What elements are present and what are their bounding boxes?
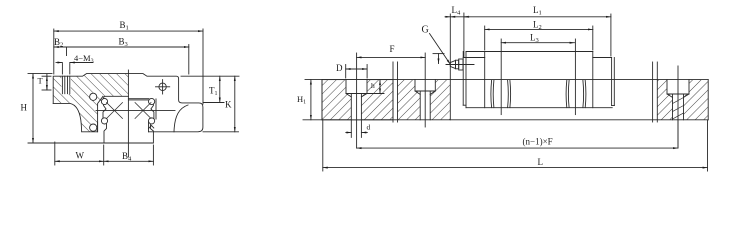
rail bottom line extended left for H [28,142,104,144]
hole centerlines [356,53,358,148]
svg-text:B4: B4 [122,151,132,163]
interior return guides [490,80,493,107]
hole 3 outline [667,80,689,120]
carriage right inner curve [149,105,189,132]
L2 [484,26,486,50]
break lines [392,62,394,122]
D [345,65,347,79]
H dim [32,74,34,143]
carriage left skirt [53,103,97,131]
svg-text:K: K [225,100,232,110]
svg-text:H: H [21,103,28,113]
4-M3 dim [61,64,63,75]
left leg inner face [98,96,103,132]
hole 1 outline [346,80,367,120]
carriage section hatch left half [53,74,128,132]
F [357,56,426,58]
h [367,93,384,95]
balls [90,93,97,100]
svg-text:W: W [76,151,85,161]
rail hatch segments [322,80,393,120]
L3 [501,42,574,44]
bolt hole circle with cross on right ear [159,83,166,90]
svg-text:(n−1)×F: (n−1)×F [523,137,553,147]
svg-text:F: F [390,44,395,54]
contact X marks [107,103,152,119]
K bottom extension [203,131,239,133]
B1 [53,29,55,74]
svg-text:4−M3: 4−M3 [74,53,94,65]
L4 / L1 [463,13,465,57]
T dim [42,75,51,77]
svg-text:B2: B2 [54,37,63,49]
rail cross-section [103,96,154,143]
svg-text:L1: L1 [533,5,542,17]
hatch boundary at carriage start [449,14,451,120]
ball centerline horizontal [96,109,175,111]
L [322,121,324,172]
carriage hole centerlines [500,39,502,115]
M3 hole white clearance [61,74,70,94]
W / B4 dims [54,142,56,165]
K dim [234,76,236,132]
svg-text:T1: T1 [209,86,218,98]
counterbore chamfers [346,91,689,97]
hole-3 bore marks [673,98,684,120]
top edge extension right for T1/K [181,75,239,77]
right leg inner pocket [149,126,154,129]
svg-text:B1: B1 [120,20,129,32]
svg-text:G: G [422,25,429,36]
d [350,121,352,138]
carriage outline [53,74,203,132]
nipple small dim [433,53,444,55]
rail centerline / half-section divider [127,70,129,157]
svg-text:L4: L4 [452,5,462,17]
grease nipple [450,60,455,68]
svg-text:B3: B3 [119,37,128,49]
H1 [310,80,312,120]
svg-text:H1: H1 [297,94,306,106]
B3 / B2 [188,45,190,75]
svg-text:L2: L2 [533,20,542,32]
rail ends [321,80,323,120]
G leader [430,34,451,65]
hole 2 outline [415,80,435,120]
M3 tapped hole lines [61,76,63,94]
carriage top extension left for H [28,73,52,75]
(n-1)xF [677,121,679,149]
T1 dim [219,76,221,102]
svg-text:d: d [367,123,371,132]
svg-text:D: D [336,63,343,73]
rail top & bottom lines [305,79,708,81]
svg-text:h: h [371,81,375,90]
svg-text:T: T [38,76,44,86]
T1 bottom extension [203,102,224,104]
svg-text:L3: L3 [530,33,539,45]
svg-text:L: L [538,157,544,167]
